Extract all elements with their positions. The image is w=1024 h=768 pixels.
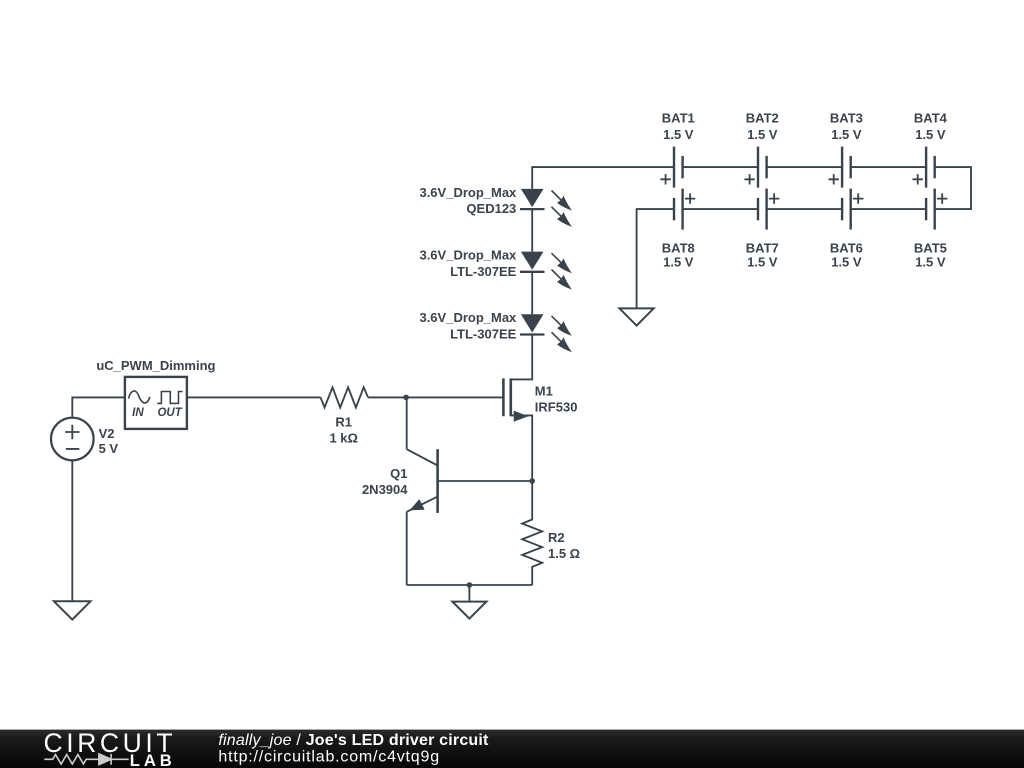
led D2 LTL-307EE bbox=[419, 248, 571, 290]
svg-text:Q1: Q1 bbox=[390, 466, 407, 481]
wire BAT2 to BAT3 bbox=[767, 166, 843, 168]
svg-text:M1: M1 bbox=[535, 383, 553, 398]
svg-text:5 V: 5 V bbox=[99, 441, 119, 456]
battery BAT1 bbox=[660, 111, 694, 188]
wire V2 bottom to ground bbox=[71, 460, 73, 601]
ground (V2) bbox=[54, 601, 91, 619]
battery BAT5 bbox=[914, 189, 947, 270]
svg-text:finally_joe / Joe's LED driver: finally_joe / Joe's LED driver circuit bbox=[218, 732, 489, 749]
svg-text:3.6V_Drop_Max: 3.6V_Drop_Max bbox=[419, 185, 517, 200]
svg-text:1.5 V: 1.5 V bbox=[915, 127, 946, 142]
svg-text:1.5 V: 1.5 V bbox=[831, 255, 862, 270]
svg-text:BAT6: BAT6 bbox=[830, 241, 863, 256]
svg-text:BAT4: BAT4 bbox=[914, 111, 948, 126]
transistor Q1 2N3904 bbox=[362, 449, 438, 513]
svg-text:QED123: QED123 bbox=[466, 201, 516, 216]
led D1 QED123 bbox=[419, 185, 571, 227]
wire BAT6 to BAT7 bbox=[767, 208, 843, 210]
svg-text:BAT2: BAT2 bbox=[746, 111, 779, 126]
svg-text:R1: R1 bbox=[335, 414, 352, 429]
wire BAT3 to BAT4 bbox=[851, 166, 926, 168]
svg-text:1.5 V: 1.5 V bbox=[831, 127, 862, 142]
wire D2 to D3 bbox=[531, 272, 533, 315]
wire node A down to Q1 collector bbox=[406, 397, 408, 449]
battery BAT4 bbox=[913, 111, 948, 188]
battery BAT7 bbox=[746, 189, 779, 270]
svg-text:1.5 V: 1.5 V bbox=[747, 255, 778, 270]
node A (gate/collector junction) bbox=[403, 395, 409, 401]
wire R1 to gate node bbox=[368, 396, 503, 398]
wire LED chain top corner to BAT1 bbox=[532, 167, 674, 189]
mosfet M1 IRF530 bbox=[503, 335, 577, 482]
resistor R1 bbox=[321, 387, 369, 445]
SCHEMATIC bbox=[51, 335, 580, 620]
ground (bottom rail) bbox=[452, 585, 486, 619]
svg-text:uC_PWM_Dimming: uC_PWM_Dimming bbox=[96, 358, 215, 373]
node C (M1 source / Q1 base / R2 junction) bbox=[529, 478, 535, 484]
ground (battery string) bbox=[620, 308, 654, 325]
BATTERIES bbox=[620, 111, 972, 326]
svg-text:BAT3: BAT3 bbox=[830, 111, 863, 126]
svg-text:LTL-307EE: LTL-307EE bbox=[450, 264, 517, 279]
svg-text:V2: V2 bbox=[99, 426, 115, 441]
voltage source V2 bbox=[51, 418, 118, 461]
op-amp-style block uC_PWM_Dimming bbox=[96, 358, 215, 429]
wire Q1 base to R2 node bbox=[438, 480, 533, 482]
wire BAT8 to ground bbox=[637, 209, 674, 308]
battery BAT8 bbox=[662, 189, 695, 270]
svg-text:R2: R2 bbox=[548, 530, 565, 545]
svg-text:LAB: LAB bbox=[130, 751, 176, 768]
wire BAT4 right side down to BAT5 bbox=[935, 167, 971, 209]
svg-text:1.5 V: 1.5 V bbox=[663, 127, 694, 142]
CircuitLab logo squiggle (resistor + diode) bbox=[44, 754, 128, 765]
svg-text:1.5 V: 1.5 V bbox=[915, 255, 946, 270]
FOOTER bbox=[0, 728, 1024, 768]
wire bottom rail bbox=[407, 584, 533, 586]
svg-text:1.5 V: 1.5 V bbox=[663, 255, 694, 270]
wire BAT7 to BAT8 bbox=[683, 208, 758, 210]
svg-text:BAT5: BAT5 bbox=[914, 241, 947, 256]
battery BAT3 bbox=[829, 111, 863, 188]
svg-text:http://circuitlab.com/c4vtq9g: http://circuitlab.com/c4vtq9g bbox=[218, 748, 440, 765]
wire BAT5 to BAT6 bbox=[851, 208, 926, 210]
wire uC block to R1 bbox=[187, 396, 321, 398]
battery BAT6 bbox=[830, 189, 863, 270]
svg-text:3.6V_Drop_Max: 3.6V_Drop_Max bbox=[419, 310, 517, 325]
svg-text:IN: IN bbox=[132, 407, 144, 419]
resistor R2 bbox=[522, 481, 580, 585]
node B (bottom rail ground junction) bbox=[467, 582, 473, 588]
wire BAT1 to BAT2 bbox=[683, 166, 758, 168]
svg-text:BAT7: BAT7 bbox=[746, 241, 779, 256]
wire D1 to D2 bbox=[531, 209, 533, 252]
svg-text:BAT8: BAT8 bbox=[662, 241, 695, 256]
svg-text:2N3904: 2N3904 bbox=[362, 482, 408, 497]
svg-text:1 kΩ: 1 kΩ bbox=[329, 430, 358, 445]
svg-text:1.5 V: 1.5 V bbox=[747, 127, 778, 142]
svg-text:OUT: OUT bbox=[157, 407, 182, 419]
svg-text:LTL-307EE: LTL-307EE bbox=[450, 327, 517, 342]
led D3 LTL-307EE bbox=[419, 310, 571, 352]
svg-text:3.6V_Drop_Max: 3.6V_Drop_Max bbox=[419, 248, 517, 263]
wire Q1 emitter down bbox=[406, 512, 408, 585]
svg-text:1.5 Ω: 1.5 Ω bbox=[548, 546, 580, 561]
battery BAT2 bbox=[744, 111, 778, 188]
LEDCHAIN bbox=[419, 167, 674, 352]
wire V2 top to uC block bbox=[72, 397, 125, 417]
svg-text:IRF530: IRF530 bbox=[535, 399, 578, 414]
svg-text:BAT1: BAT1 bbox=[662, 111, 695, 126]
